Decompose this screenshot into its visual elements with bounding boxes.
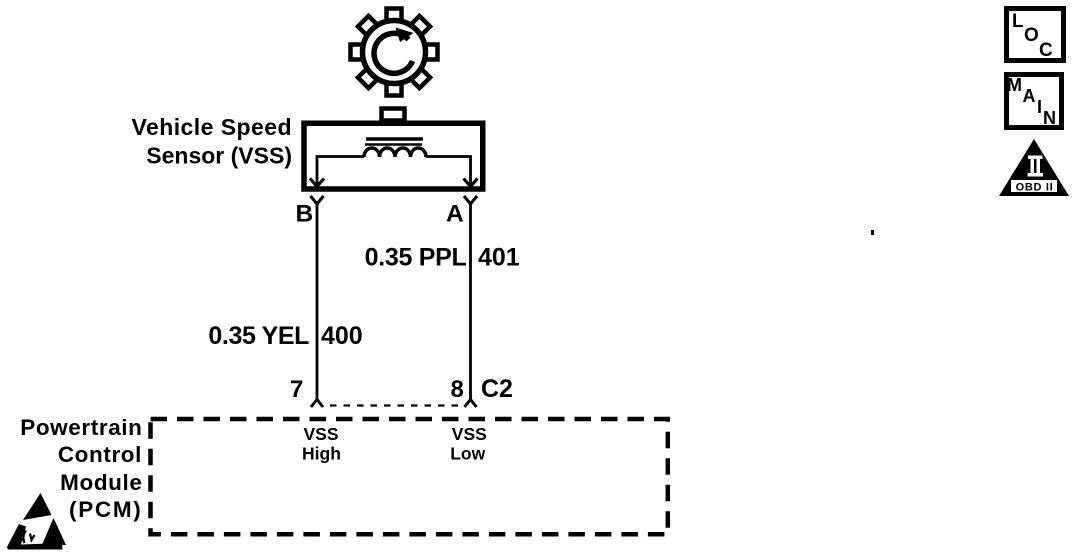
- reluctor gear wheel teeth: [351, 9, 438, 96]
- svg-text:Sensor (VSS): Sensor (VSS): [146, 143, 292, 169]
- svg-text:0.35 YEL: 0.35 YEL: [208, 322, 309, 350]
- svg-text:8: 8: [451, 376, 464, 403]
- wire end fork right: [465, 400, 477, 408]
- svg-text:VSS: VSS: [452, 424, 487, 444]
- MAIN box: [1007, 75, 1062, 128]
- connector B fork: [311, 196, 324, 204]
- svg-text:N: N: [1043, 108, 1056, 128]
- svg-text:Low: Low: [450, 444, 485, 464]
- C2 connector dashed line: [330, 404, 458, 406]
- svg-text:0.35 PPL: 0.35 PPL: [365, 244, 467, 272]
- rotation arrowhead: [396, 28, 414, 43]
- wire 400 (left vertical): [316, 203, 319, 400]
- svg-text:B: B: [296, 201, 314, 228]
- OBD II triangle: [999, 139, 1069, 196]
- svg-text:L: L: [1012, 11, 1024, 32]
- coil core line 1: [366, 137, 423, 141]
- svg-text:O: O: [1024, 25, 1039, 46]
- gear ring: [363, 21, 426, 84]
- svg-text:A: A: [446, 201, 464, 228]
- svg-text:A: A: [1023, 86, 1036, 106]
- PCM dashed box: [151, 419, 668, 534]
- svg-text:401: 401: [478, 244, 520, 272]
- wire coil to left: [317, 157, 364, 185]
- svg-text:7: 7: [290, 376, 303, 403]
- svg-text:Module: Module: [60, 470, 142, 495]
- coil core line 2: [365, 143, 422, 146]
- speck artifact: [871, 230, 874, 235]
- left down arrowhead: [310, 179, 324, 187]
- connector A fork: [464, 196, 477, 204]
- svg-text:400: 400: [321, 322, 363, 350]
- svg-text:Vehicle Speed: Vehicle Speed: [131, 114, 292, 140]
- svg-text:OBD II: OBD II: [1016, 182, 1054, 194]
- wire 401 (right vertical): [469, 203, 472, 400]
- VSS box: [304, 123, 483, 189]
- wire coil to right: [426, 157, 471, 185]
- LOC box: [1007, 9, 1064, 61]
- sensor stem tab: [382, 109, 405, 121]
- svg-text:C: C: [1039, 40, 1053, 61]
- ESD warning symbol: [7, 493, 67, 550]
- svg-text:C2: C2: [481, 375, 513, 403]
- rotation arrow arc: [374, 33, 412, 73]
- svg-text:I: I: [1037, 97, 1042, 117]
- inductor coil: [364, 148, 426, 157]
- svg-text:(PCM): (PCM): [69, 497, 142, 522]
- svg-text:Control: Control: [58, 442, 142, 467]
- OBD II roman numeral: [1011, 156, 1057, 193]
- wire end fork left: [311, 400, 323, 408]
- svg-text:M: M: [1007, 75, 1022, 95]
- svg-text:High: High: [302, 444, 341, 464]
- svg-text:VSS: VSS: [303, 424, 338, 444]
- right down arrowhead: [464, 179, 478, 187]
- svg-text:Powertrain: Powertrain: [20, 415, 142, 440]
